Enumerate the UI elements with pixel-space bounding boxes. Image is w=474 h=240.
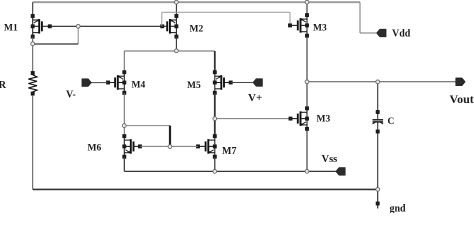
svg-text:M4: M4: [132, 81, 146, 91]
svg-text:C: C: [388, 117, 395, 127]
svg-text:gnd: gnd: [390, 204, 407, 213]
svg-text:M2: M2: [190, 25, 204, 35]
svg-text:R: R: [0, 80, 7, 91]
svg-text:M1: M1: [4, 23, 18, 33]
svg-text:M3: M3: [313, 23, 327, 33]
svg-text:V-: V-: [66, 90, 76, 101]
svg-text:M3: M3: [317, 115, 331, 125]
svg-text:Vout: Vout: [450, 92, 474, 106]
svg-text:Vss: Vss: [322, 154, 338, 165]
svg-text:M6: M6: [88, 144, 102, 154]
svg-text:V+: V+: [248, 92, 262, 104]
svg-text:Vdd: Vdd: [392, 29, 411, 40]
svg-text:M7: M7: [222, 146, 236, 157]
svg-text:M5: M5: [187, 81, 201, 91]
